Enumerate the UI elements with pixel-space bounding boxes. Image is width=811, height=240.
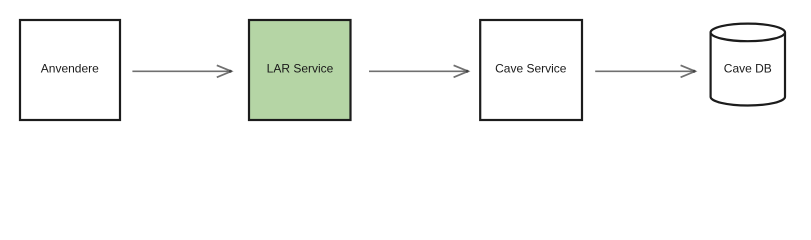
box Anvendere [20, 20, 120, 120]
arrow 1 tip dot [229, 70, 232, 73]
wire arrow 2 [369, 65, 468, 77]
arrow 2 tip dot [466, 70, 469, 73]
svg-text:Anvendere: Anvendere [41, 62, 99, 76]
wire arrow 3 [595, 65, 695, 77]
wire arrow 1 [132, 65, 231, 77]
svg-text:Cave Service: Cave Service [495, 62, 567, 76]
svg-text:LAR Service: LAR Service [267, 62, 334, 76]
svg-text:Cave DB: Cave DB [724, 62, 772, 76]
arrow 3 tip dot [693, 70, 696, 73]
box Cave Service [480, 20, 582, 120]
box LAR Service [249, 20, 351, 120]
cylinder Cave DB [711, 32, 785, 105]
